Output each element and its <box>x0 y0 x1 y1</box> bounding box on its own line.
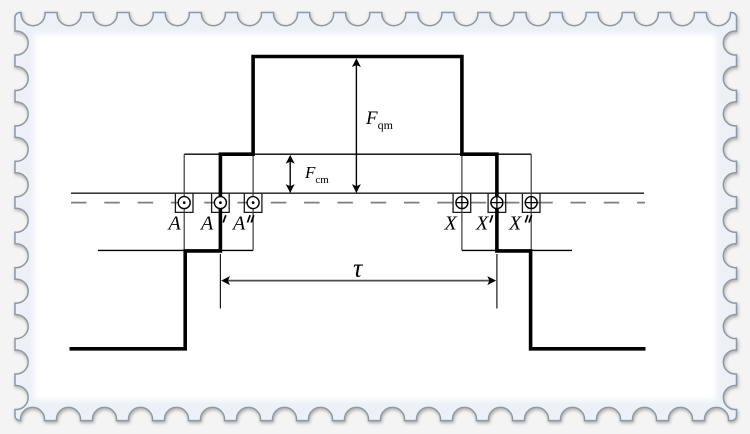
tau extension line left <box>219 254 221 309</box>
coil side vertical at slot A2 <box>252 154 254 250</box>
svg-text:X: X <box>444 213 458 235</box>
svg-text:A: A <box>199 213 214 235</box>
svg-text:X: X <box>508 213 522 235</box>
conductor A2 (dot) <box>247 197 259 209</box>
coil mmf bottom line left (-Fcm) <box>98 249 253 251</box>
conductor X1 (cross) <box>491 197 503 209</box>
tau extension line right <box>496 254 498 309</box>
Fqm dimension arrow <box>355 60 357 193</box>
tau dimension arrow <box>223 280 494 282</box>
slot box 5 <box>488 193 506 212</box>
coil side vertical at slot X2 <box>530 154 532 250</box>
conductor X0 (cross) <box>456 197 468 209</box>
coil side vertical at slot A <box>183 154 185 250</box>
Fcm dimension arrow <box>289 156 291 192</box>
svg-text:X: X <box>475 213 489 235</box>
slot box 1 <box>175 193 193 212</box>
stator surface reference line <box>71 192 644 194</box>
svg-text:A: A <box>167 213 182 235</box>
coil mmf top line (+Fcm) <box>184 153 531 155</box>
slot box 2 <box>212 193 230 212</box>
coil side vertical at slot X <box>461 154 463 250</box>
slot box 6 <box>522 193 540 212</box>
inner white panel <box>34 34 716 400</box>
svg-text:A: A <box>231 213 246 235</box>
slot box 3 <box>244 193 262 212</box>
dashed zero axis <box>71 202 645 204</box>
resultant mmf stepped wave (thick) <box>70 57 646 349</box>
conductor A0 (dot) <box>178 197 190 209</box>
slot box 4 <box>453 193 471 212</box>
conductor A1 (dot) <box>214 197 226 209</box>
coil mmf bottom line right (-Fcm) <box>462 249 572 251</box>
conductor X2 (cross) <box>525 197 537 209</box>
